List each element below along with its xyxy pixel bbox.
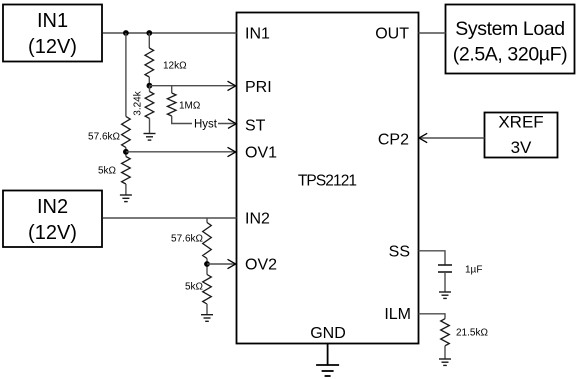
svg-text:(2.5A, 320µF): (2.5A, 320µF) (453, 44, 567, 66)
wire IN1 box to pin IN1 (103, 32, 237, 34)
resistor R 21.5k (441, 319, 450, 346)
svg-text:SS: SS (389, 244, 410, 261)
arrow into OV2 (228, 259, 236, 268)
svg-text:IN2: IN2 (245, 211, 270, 228)
wire XREF to pin CP2 (420, 137, 485, 139)
ground (IN2 divider) (201, 315, 213, 322)
svg-text:1µF: 1µF (465, 265, 482, 276)
block IN2 source (3, 191, 102, 248)
wire OUT to System Load (419, 32, 446, 34)
wire OV1 node to pin OV1 (126, 151, 235, 153)
block System Load (446, 5, 575, 74)
capacitor C 1uF (438, 265, 452, 272)
wire ILM to resistor (419, 314, 446, 319)
svg-text:IN1: IN1 (37, 10, 68, 32)
arrow into ST (228, 119, 236, 128)
wire capacitor to ground (444, 272, 446, 292)
svg-text:OV2: OV2 (245, 257, 277, 274)
resistor 5k (IN1 divider bottom) (122, 157, 131, 185)
node junction on IN1 rail (12k branch) (146, 30, 152, 36)
wire 5k to ground (125, 184, 127, 195)
wire 57.6k to OV2 node (206, 259, 208, 275)
wire Hyst to pin ST (218, 123, 235, 125)
wire 5k to ground (206, 304, 208, 315)
wire left divider branch (down from IN1 rail) (125, 33, 127, 117)
IC U1 TPS2121 body (237, 13, 419, 344)
resistor 5k (IN2 divider bottom) (203, 275, 212, 305)
wire IN2 divider branch (206, 218, 208, 223)
svg-text:1MΩ: 1MΩ (179, 101, 201, 112)
wire 3.24k to ground (149, 119, 151, 134)
svg-text:ST: ST (245, 118, 266, 135)
svg-text:3.24k: 3.24k (132, 90, 143, 115)
resistor R 3.24k (149, 86, 151, 92)
svg-text:57.6kΩ: 57.6kΩ (88, 132, 120, 143)
node OV2 divider junction (204, 261, 210, 267)
block IN1 source (3, 5, 102, 62)
svg-text:57.6kΩ: 57.6kΩ (171, 234, 203, 245)
wire OV2 node to pin OV2 (207, 263, 235, 265)
resistor R 12k (145, 48, 154, 77)
svg-text:OUT: OUT (375, 26, 409, 43)
resistor 57.6k (IN1 divider top) (122, 117, 131, 148)
arrow into OV1 (228, 147, 236, 156)
svg-text:System Load: System Load (455, 18, 564, 40)
svg-text:IN2: IN2 (37, 196, 68, 218)
ground (IN1 divider) (120, 195, 132, 202)
wire IN2 box to pin IN2 (103, 217, 237, 219)
wire SS to capacitor (419, 251, 446, 265)
svg-text:(12V): (12V) (28, 36, 77, 58)
svg-text:IN1: IN1 (245, 26, 270, 43)
wire PRI node to pin PRI (149, 85, 234, 87)
wire 12k to PRI node (148, 77, 150, 86)
svg-text:PRI: PRI (245, 79, 272, 96)
node PRI junction (147, 83, 153, 89)
svg-text:5kΩ: 5kΩ (98, 166, 117, 177)
node OV1 divider junction (123, 149, 129, 155)
ground (capacitor) (439, 292, 451, 298)
wire 21.5k to ground (444, 346, 446, 359)
svg-text:OV1: OV1 (245, 145, 277, 162)
svg-text:5kΩ: 5kΩ (185, 282, 204, 293)
wire 57.6k to OV1 node (125, 148, 127, 157)
svg-text:3V: 3V (511, 138, 532, 157)
wire 1M bottom to Hyst (172, 116, 192, 124)
arrow into PRI (228, 81, 236, 90)
svg-text:CP2: CP2 (378, 132, 409, 149)
svg-text:XREF: XREF (498, 113, 543, 132)
node junction on IN1 rail (left branch) (123, 30, 129, 36)
block XREF 3V (485, 113, 558, 158)
arrow into CP2 (419, 133, 427, 142)
wire GND pin to ground (327, 344, 329, 366)
ground (3.24k) (144, 134, 156, 141)
svg-text:21.5kΩ: 21.5kΩ (456, 328, 488, 339)
resistor R 1M (171, 86, 173, 93)
svg-text:TPS2121: TPS2121 (298, 173, 357, 190)
ground (21.5k) (439, 359, 451, 365)
svg-text:Hyst: Hyst (194, 119, 218, 131)
svg-text:12kΩ: 12kΩ (163, 61, 187, 72)
svg-text:ILM: ILM (384, 306, 411, 323)
svg-text:GND: GND (310, 325, 346, 342)
svg-text:(12V): (12V) (28, 222, 77, 244)
ground (GND pin) (316, 365, 339, 376)
wire 12k branch down from IN1 rail (148, 33, 150, 48)
resistor 57.6k (IN2 divider top) (203, 223, 212, 259)
